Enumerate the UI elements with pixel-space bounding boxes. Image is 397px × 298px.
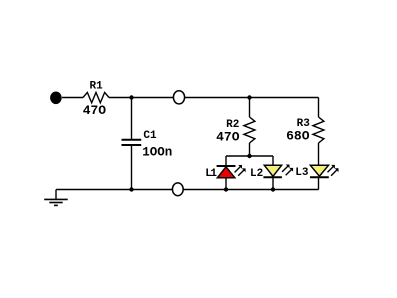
svg-text:L2: L2 [250,168,263,180]
svg-text:1OOn: 1OOn [142,146,172,160]
svg-text:R1: R1 [90,81,104,93]
svg-text:47O: 47O [216,130,240,145]
svg-text:C1: C1 [143,130,157,142]
svg-text:L3: L3 [295,167,309,179]
svg-text:68O: 68O [286,129,310,144]
svg-text:47O: 47O [83,103,107,118]
